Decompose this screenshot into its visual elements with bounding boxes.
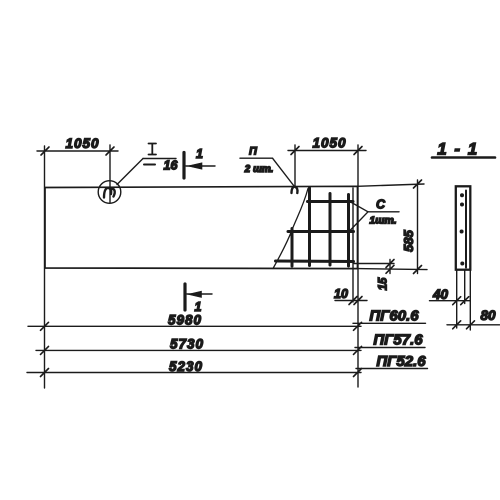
dimension line 15 (389, 260, 391, 274)
section 1-1 rebar (465, 191, 467, 268)
type label PG60.6 underline (353, 322, 426, 324)
mesh horizontal bar 2 (288, 230, 354, 233)
section mark 1 bottom, cut line (183, 284, 186, 310)
detail label -16 (144, 164, 155, 166)
top extension to 585 dim (358, 184, 425, 186)
mesh break line (273, 189, 308, 269)
type label PG52.6 underline (356, 368, 428, 370)
svg-text:ПГ60.6: ПГ60.6 (369, 308, 419, 325)
extension line at loop P (294, 145, 296, 187)
dimension row line 5980 (28, 325, 361, 327)
svg-text:1050: 1050 (312, 136, 346, 151)
leader from P label to loop (273, 158, 295, 186)
dimension line 40 (430, 300, 471, 302)
svg-text:ПГ52.6: ПГ52.6 (376, 353, 426, 370)
svg-text:1шт.: 1шт. (369, 215, 396, 227)
section extension left (456, 270, 458, 328)
bottom extension to 585 dim (358, 269, 427, 270)
leader to mesh label C upper (348, 201, 368, 212)
section mark 1 top, arrowhead (188, 163, 203, 169)
detail label bar (143, 158, 176, 160)
svg-text:5230: 5230 (169, 359, 203, 374)
section extension middle (464, 270, 466, 304)
svg-text:ПГ57.6: ПГ57.6 (373, 332, 423, 349)
section 1-1 bar dot 2 (460, 203, 464, 207)
svg-text:5730: 5730 (170, 337, 204, 352)
mesh bottom extension to 15 dim (354, 263, 394, 265)
section 1-1 bar dot 3 (460, 230, 464, 234)
mesh horizontal bar 1 (308, 200, 354, 203)
svg-text:585: 585 (401, 229, 416, 251)
mesh label bar (368, 211, 400, 213)
detail circle (98, 181, 121, 204)
section 1-1 bar dot 4 (460, 262, 464, 266)
section mark 1 top, cut line (182, 153, 185, 179)
type label PG57.6 underline (355, 347, 425, 349)
svg-text:15: 15 (378, 277, 390, 290)
svg-text:10: 10 (334, 287, 348, 301)
svg-text:2 шт.: 2 шт. (244, 164, 274, 175)
section 1-1 bar dot 1 (460, 193, 464, 197)
svg-text:C: C (376, 198, 386, 212)
label P bar (240, 157, 273, 159)
svg-text:40: 40 (432, 287, 449, 302)
section extension right (469, 270, 471, 330)
svg-text:П: П (249, 146, 258, 158)
detail label I (149, 144, 157, 155)
dimension line 10 (335, 300, 367, 302)
svg-text:1: 1 (196, 147, 203, 161)
mesh vertical bar 4 (347, 195, 350, 267)
dimension line 80 (447, 324, 500, 326)
beam outline (main elevation) (45, 186, 358, 268)
svg-text:16: 16 (164, 158, 179, 172)
loop P at beam top edge (292, 187, 298, 193)
leader to mesh label C lower (350, 212, 368, 231)
dimension line 1050 left (37, 150, 118, 152)
right extension line (357, 145, 359, 387)
dimension row line 5230 (27, 372, 361, 374)
svg-text:80: 80 (480, 308, 496, 323)
left extension line (44, 146, 46, 388)
svg-text:5980: 5980 (168, 313, 202, 328)
mesh vertical bar 3 (329, 194, 332, 266)
mesh vertical bar 1 (291, 229, 294, 267)
dimension row line 5730 (36, 349, 361, 351)
mesh horizontal bar 3 (276, 260, 354, 264)
svg-text:1050: 1050 (65, 136, 99, 151)
section mark 1 top, arrow line (186, 165, 215, 167)
mesh vertical bar 2 (308, 188, 311, 266)
section mark 1 bottom, arrow line (187, 293, 212, 295)
lifting loop inside circle (104, 188, 115, 198)
section mark 1 bottom, arrowhead (188, 291, 202, 297)
svg-text:1 - 1: 1 - 1 (437, 140, 479, 159)
leader to detail I (117, 159, 143, 185)
section 1-1 title underline (432, 156, 495, 159)
section 1-1 body (456, 186, 471, 269)
dimension line 1050 right (288, 150, 366, 152)
extension line mesh end for 10 dim (352, 188, 354, 302)
dimension line 585 (417, 180, 419, 274)
extension line at detail circle (109, 145, 111, 203)
